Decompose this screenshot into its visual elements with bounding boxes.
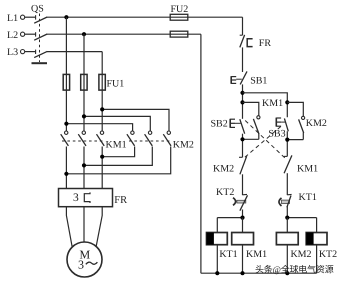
thermal relay FR heater box [59,189,128,207]
wire phase1 column [65,17,67,131]
svg-text:QS: QS [31,4,44,15]
node left coil junction [217,216,244,233]
contact KM2 interlock (NC) [213,156,247,195]
wire KM2 bank output a cross to phase3 [100,147,135,159]
svg-text:SB3: SB3 [268,129,285,140]
contact KM1 self-hold label [262,98,283,109]
svg-text:3: 3 [78,258,84,272]
node junction L1-phase1 [64,15,68,19]
contactor KM2 main contacts [127,131,194,150]
svg-text:L2: L2 [7,30,18,41]
node right coil junction [285,216,316,233]
svg-text:FU2: FU2 [171,4,189,15]
mechanical link SB3 to KM2 NC (dashed) [244,127,281,159]
contactor KM1 main contacts [61,131,127,150]
contact KM1 self-hold (NO) [253,116,260,140]
timer contact KT2 (NC delayed) [216,187,248,217]
mechanical link SB2 to KM1 NC (dashed) [245,121,285,159]
wire L2 rail [47,33,201,35]
wire bottom bus [201,271,317,275]
contact KM1 interlock (NC) [284,155,318,195]
svg-text:L3: L3 [7,47,18,58]
wire KM1 bank outputs down [66,147,102,189]
svg-text:KM2: KM2 [306,118,327,129]
svg-text:KM2: KM2 [213,164,234,175]
fuse FU1 [63,74,124,90]
svg-text:KM1: KM1 [246,249,267,260]
wire SB3 bottom join [285,131,303,156]
svg-text:FU1: FU1 [107,79,125,90]
coil KT2 (timer) [306,233,337,274]
wire branch phase2 to KM2 bank [82,114,150,131]
svg-text:FR: FR [259,38,272,49]
node L3 terminal [7,47,25,58]
watermark [255,265,334,275]
svg-text:L1: L1 [7,13,18,24]
wire SB2 bottom join [240,134,258,158]
wire motor leads [66,207,102,249]
svg-text:KM1: KM1 [297,164,318,175]
push button SB2 (forward start, NO) [211,119,245,134]
node L2 terminal [7,30,25,41]
wire FR to SB1 [242,47,244,72]
timer contact KT1 (NC delayed) [279,192,317,218]
wire phase3 column [101,52,103,131]
svg-text:KT2: KT2 [216,187,234,198]
wire stub to KM1 self-hold [243,102,259,116]
motor M [67,242,102,277]
coil KM2 (contactor) [276,233,311,274]
coil KT1 (timer) [207,233,238,274]
node L1 terminal [7,13,25,24]
wire L1 drop to control [242,17,244,35]
wire L3 rail [47,51,102,53]
fuse FU2 [170,4,188,37]
wire branch phase3 to KM2 bank [100,107,169,131]
coil KM1 (contactor) [232,233,267,274]
svg-text:头条@全球电气资源: 头条@全球电气资源 [255,265,334,275]
svg-text:FR: FR [114,195,127,206]
svg-text:KT1: KT1 [299,192,317,203]
svg-text:KT1: KT1 [219,249,237,260]
wire L1 rail [47,16,243,18]
svg-text:SB2: SB2 [211,119,228,130]
svg-text:KT2: KT2 [319,249,337,260]
thermal relay FR NC contact [240,35,272,49]
svg-text:KM2: KM2 [290,249,311,260]
wire phase2 column [83,34,85,131]
wire branch phase1 to KM2 bank [64,122,132,131]
svg-text:KM2: KM2 [173,139,194,150]
wire L2 return to bottom bus [200,34,202,273]
push button SB1 (stop, NC) [231,71,267,86]
wire SB1 to node 3 [240,84,244,118]
wire KM2 bank output b cross to phase2 [82,147,152,168]
node junction L2-phase2 [82,32,86,36]
svg-text:3: 3 [73,192,79,204]
wire KM2 bank output c cross to phase1 [64,147,170,176]
svg-text:KM1: KM1 [106,139,127,150]
wire node 3 to right branch [243,93,290,117]
push button SB3 (reverse start, NO) [268,118,288,140]
wire stub to KM2 self-hold [287,102,303,116]
contact KM2 self-hold (NO) [299,116,327,139]
switch QS [25,4,48,65]
svg-text:SB1: SB1 [250,75,267,86]
svg-text:KM1: KM1 [262,98,283,109]
